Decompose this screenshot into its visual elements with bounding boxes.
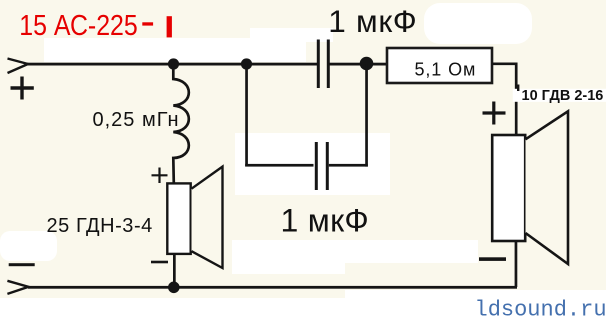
wire: top horizontal from input to C1 left plate xyxy=(27,63,318,66)
white patch bottom band xyxy=(0,298,606,319)
input plus sign xyxy=(11,77,34,100)
capacitor C1 1 мкФ (top) plates xyxy=(318,40,328,89)
white patch tweeter label xyxy=(513,89,606,102)
wire: C2 branch bottom-right horizontal xyxy=(329,164,368,167)
speaker T1 cone xyxy=(526,111,569,264)
white patch above top wire xyxy=(44,38,306,62)
speaker W1 minus mark xyxy=(151,261,168,264)
node: junction dot at C2 branch left xyxy=(241,58,252,69)
wire: C2 branch right vertical xyxy=(365,64,368,167)
wire: bottom rail xyxy=(28,286,517,289)
svg-text:1 мкФ: 1 мкФ xyxy=(281,203,370,239)
svg-text:0,25 мГн: 0,25 мГн xyxy=(93,109,180,131)
wire: C1 right plate to resistor xyxy=(330,63,388,66)
inductor L1 coil xyxy=(173,64,189,184)
wire: woofer to bottom rail xyxy=(173,254,176,288)
capacitor C2 1 мкФ (bottom) plates xyxy=(316,142,327,190)
wire: tweeter to bottom rail xyxy=(515,241,518,287)
wire: C2 branch left vertical xyxy=(245,64,248,166)
white patch top-right xyxy=(424,3,532,44)
speaker T1 minus mark xyxy=(479,257,506,261)
svg-text:15 АС-225: 15 АС-225 xyxy=(19,9,137,41)
wire: C2 branch bottom-left horizontal xyxy=(245,164,313,167)
tick remnant above tweeter label xyxy=(517,85,519,92)
svg-text:ldsound.ru: ldsound.ru xyxy=(475,297,606,319)
title numeral I xyxy=(167,16,172,37)
svg-text:10 ГДВ 2-16: 10 ГДВ 2-16 xyxy=(522,88,604,104)
node: junction dot at inductor tap xyxy=(168,58,179,69)
speaker T1 driver rectangle xyxy=(492,135,525,241)
speaker T1 plus mark xyxy=(483,102,506,125)
input terminal plus chevron xyxy=(8,59,29,74)
node: junction dot at C2 branch right xyxy=(360,57,374,71)
wire: resistor to tweeter corner xyxy=(492,64,516,135)
title dash xyxy=(142,22,153,25)
white patch bottom-left blob xyxy=(0,231,57,261)
svg-text:25 ГДН-3-4: 25 ГДН-3-4 xyxy=(47,215,153,237)
node: junction dot bottom rail xyxy=(168,282,180,294)
speaker W1 cone xyxy=(192,167,223,268)
svg-text:1 мкФ: 1 мкФ xyxy=(328,3,417,39)
white patch below bottom cap label xyxy=(232,240,478,263)
speaker W1 driver rectangle xyxy=(167,183,190,254)
svg-text:5,1 Ом: 5,1 Ом xyxy=(415,59,477,79)
input terminal minus chevron xyxy=(7,281,28,294)
white patch capacitor loop xyxy=(235,133,390,195)
input minus sign xyxy=(9,263,35,266)
resistor R1 box xyxy=(387,48,492,83)
speaker W1 plus mark xyxy=(152,168,168,184)
